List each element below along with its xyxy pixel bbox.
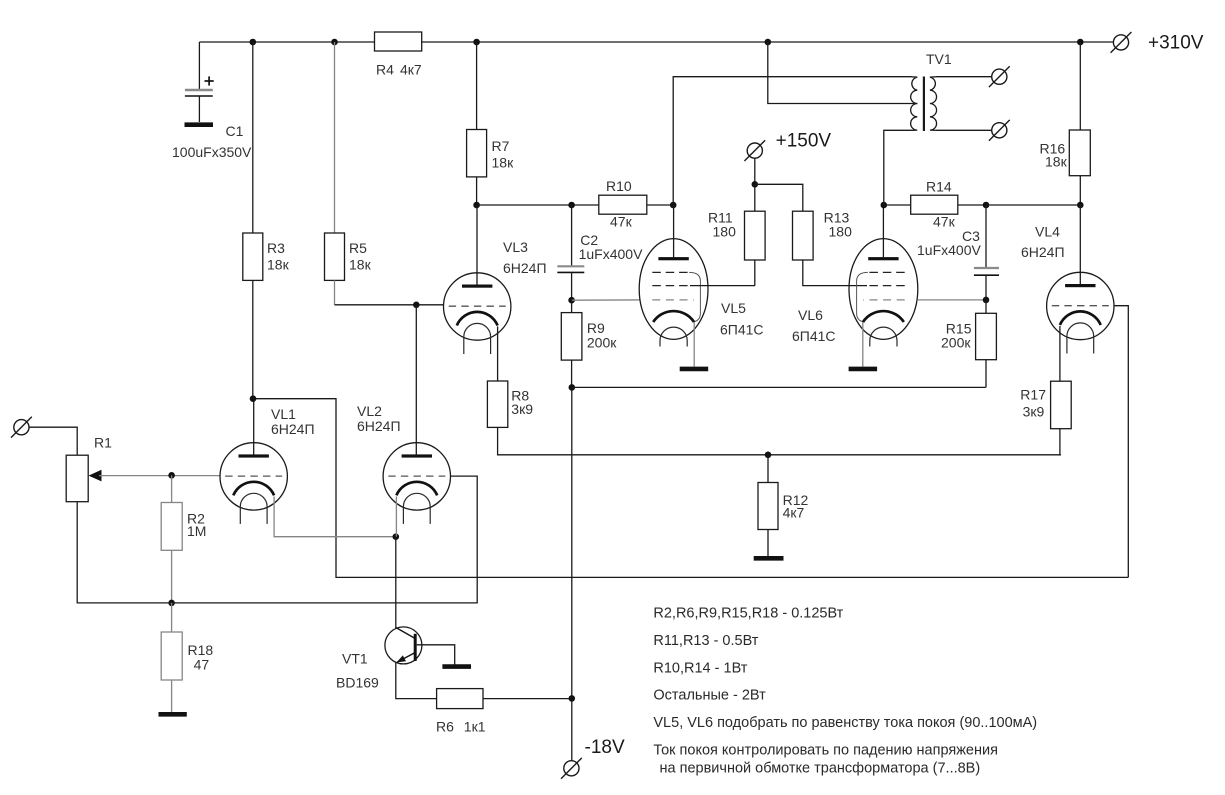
node: R18 top junction <box>168 600 175 607</box>
node: rail junction at R16 <box>1077 39 1084 46</box>
wire: VL4 anode lead <box>1079 205 1081 285</box>
svg-text:R4: R4 <box>376 62 394 78</box>
node: VL5 grid node <box>568 297 575 304</box>
wire: R7 top lead <box>476 42 478 130</box>
ground below R18 <box>159 712 187 717</box>
wire: C3 bottom lead <box>985 275 987 300</box>
node: VL6 grid node <box>983 297 990 304</box>
wire: VL5 cathode lead <box>693 322 695 367</box>
resistor R6 <box>436 689 486 735</box>
ground below C1 <box>185 122 214 127</box>
node: R9 bottom / -18V line junction <box>569 384 576 391</box>
wire: VL5 anode lead into tube <box>673 205 675 258</box>
svg-text:C1: C1 <box>226 123 244 139</box>
svg-text:200к: 200к <box>587 335 617 351</box>
svg-text:+150V: +150V <box>776 131 832 152</box>
node: rail junction at transformer centre tap <box>765 39 772 46</box>
ground below R12 <box>754 556 784 561</box>
wire: R14 right lead <box>958 204 986 206</box>
svg-text:VL1: VL1 <box>271 406 296 422</box>
wire: TV1 secondary bottom lead <box>936 129 992 131</box>
wire: VT1 emitter lead to R6 <box>396 663 437 699</box>
svg-text:180: 180 <box>713 224 737 240</box>
terminal +150V <box>744 140 765 161</box>
capacitor C2 <box>557 232 643 272</box>
svg-text:18к: 18к <box>267 257 290 273</box>
wire: VL5 screen grid stub to R11 <box>690 285 755 287</box>
svg-text:Ток покоя контролировать по па: Ток покоя контролировать по падению напр… <box>653 742 998 758</box>
wire: VL4 cathode lead <box>1059 326 1061 381</box>
TV1 secondary winding <box>930 77 937 131</box>
svg-text:3к9: 3к9 <box>511 401 533 417</box>
wire: R7 bottom lead <box>476 177 478 205</box>
terminal input <box>11 417 32 438</box>
wire: VL5 grid wire <box>572 299 640 301</box>
svg-text:VL4: VL4 <box>1035 224 1060 240</box>
wire: R15 bottom lead <box>985 360 987 388</box>
wire: +310V top rail right section <box>422 41 1114 43</box>
TV1 primary winding <box>911 77 918 131</box>
svg-text:-18V: -18V <box>585 737 625 758</box>
wire: R18 top wire <box>171 603 173 632</box>
wire: R9 top lead <box>571 300 573 312</box>
resistor R8 <box>487 381 533 427</box>
svg-text:VT1: VT1 <box>342 651 368 667</box>
triode VL2 <box>383 443 450 524</box>
node: VL5 anode junction <box>670 202 677 209</box>
ground below VL6 cathode <box>849 367 878 372</box>
svg-text:6Н24П: 6Н24П <box>357 418 401 434</box>
svg-text:VL5, VL6 подобрать по равенств: VL5, VL6 подобрать по равенству тока пок… <box>653 715 1037 731</box>
wire: VL6 anode lead <box>882 205 884 258</box>
ground at VT1 base <box>442 664 471 669</box>
svg-text:R14: R14 <box>926 179 952 195</box>
resistor R7 <box>467 130 514 177</box>
node: R11/R13 top junction <box>752 181 759 188</box>
wire: VL4 grid stub to feedback line <box>1114 306 1128 578</box>
node: VL1 anode junction <box>250 395 257 402</box>
resistor R13 <box>793 210 853 261</box>
svg-text:47к: 47к <box>933 214 956 230</box>
node: VL6 anode junction <box>881 202 888 209</box>
transistor VT1 <box>336 627 422 691</box>
svg-text:VL3: VL3 <box>503 239 528 255</box>
resistor R10 <box>599 178 647 230</box>
svg-text:R1: R1 <box>94 435 112 451</box>
wire: C3 node to R16 bottom node <box>986 204 1080 206</box>
svg-text:18к: 18к <box>1045 154 1068 170</box>
svg-text:R10: R10 <box>606 178 632 194</box>
resistor R15 <box>941 313 996 359</box>
node: VL4 anode junction <box>1077 202 1084 209</box>
node: VL3 grid / VL2 anode junction <box>413 302 420 309</box>
svg-text:R3: R3 <box>267 240 285 256</box>
wire: R1 wiper to VL1 grid <box>99 475 220 477</box>
wire: C1 to ground <box>198 96 200 122</box>
TV1 core <box>923 77 925 132</box>
triode VL4 <box>1047 272 1114 353</box>
svg-text:180: 180 <box>829 224 853 240</box>
wire: C1 top lead <box>198 42 200 89</box>
svg-text:6П41С: 6П41С <box>792 328 836 344</box>
wire: R11 top lead <box>754 184 756 211</box>
triode VL1 <box>220 443 287 524</box>
svg-text:R17: R17 <box>1020 387 1046 403</box>
wire: VL6 grid wire to C3 node <box>918 299 986 301</box>
wire: VL6 cathode lead <box>862 322 864 367</box>
wire: VT1 base to ground <box>417 645 455 665</box>
wire: R1 bottom lead and grid return line to VL2 grid <box>77 476 477 603</box>
svg-text:TV1: TV1 <box>926 51 952 67</box>
svg-text:4к7: 4к7 <box>783 505 805 521</box>
svg-text:1uFx400V: 1uFx400V <box>579 246 643 262</box>
wire: feedback line VL1 anode to VL4 grid <box>253 399 1128 578</box>
wire: VL3 anode lead <box>476 205 478 286</box>
ground below VL5 cathode <box>680 367 709 372</box>
resistor R16 <box>1040 130 1091 176</box>
wire: C3 top lead <box>985 205 987 267</box>
svg-text:VL5: VL5 <box>721 300 746 316</box>
wire: VL3 cathode lead to R8 <box>497 326 499 381</box>
node: cathode / VT1 collector junction <box>393 533 400 540</box>
svg-text:R5: R5 <box>349 240 367 256</box>
svg-text:4к7: 4к7 <box>400 62 422 78</box>
wire: R12 bottom lead <box>767 530 769 557</box>
svg-text:6П41С: 6П41С <box>720 322 764 338</box>
svg-text:VL2: VL2 <box>357 403 382 419</box>
wire: R9 bottom lead <box>571 360 573 387</box>
terminal TV1 secondary top <box>989 66 1010 87</box>
wire: R17 bottom lead to cathode return line <box>1059 429 1061 455</box>
svg-text:6Н24П: 6Н24П <box>271 421 315 437</box>
resistor R9 <box>561 313 617 361</box>
wire: junction to R13 top <box>755 184 803 211</box>
wire: VL6 anode junction to transformer primary bottom <box>884 130 912 205</box>
svg-text:VL6: VL6 <box>798 307 823 323</box>
pentode VL6 (mirrored) <box>849 239 918 347</box>
wire: R5 bottom lead to VL3 grid node <box>334 280 336 304</box>
wire: VT1 collector lead <box>395 537 397 629</box>
svg-text:3к9: 3к9 <box>1023 404 1045 420</box>
svg-text:1к1: 1к1 <box>464 719 486 735</box>
wire: R3 top lead <box>252 42 254 233</box>
wire: R8 bottom lead <box>498 427 1061 454</box>
wire: R16 bottom lead <box>1079 176 1081 205</box>
resistor R5 <box>325 233 372 280</box>
wire: +310V top rail left section <box>199 41 374 43</box>
svg-text:47: 47 <box>194 657 210 673</box>
wire: C2 top lead <box>571 205 573 266</box>
wire: R2 bottom lead <box>171 550 173 603</box>
resistor R4 <box>375 32 422 51</box>
svg-text:на первичной обмотке трансформ: на первичной обмотке трансформатора (7..… <box>660 761 981 777</box>
wire: R10 line from C2 node to R10 <box>477 204 599 206</box>
potentiometer R1 <box>66 435 112 502</box>
svg-text:Остальные - 2Вт: Остальные - 2Вт <box>653 688 766 704</box>
wire: R6 right lead to -18V line <box>483 698 572 700</box>
wire: TV1 secondary top lead <box>936 76 992 78</box>
annotation text block <box>653 606 1037 777</box>
node: R12 top junction <box>765 452 772 459</box>
svg-text:R7: R7 <box>492 138 510 154</box>
resistor R18 <box>161 632 213 680</box>
wire: VL2 cathode lead <box>395 497 397 537</box>
wire: R2 top lead <box>171 475 173 502</box>
wire: R11 bottom lead to VL5 screen <box>754 260 756 286</box>
wire: +150V lead down <box>754 158 756 184</box>
svg-text:6Н24П: 6Н24П <box>1021 244 1065 260</box>
svg-text:100uFx350V: 100uFx350V <box>172 144 252 160</box>
svg-text:R11,R13 - 0.5Вт: R11,R13 - 0.5Вт <box>653 633 758 649</box>
svg-text:R6: R6 <box>436 719 454 735</box>
transformer TV1 <box>768 42 1010 141</box>
wire: VL5 anode to transformer primary top <box>673 77 911 205</box>
wire: R12 top lead <box>767 455 769 483</box>
terminal +310V <box>1111 32 1132 53</box>
svg-text:+310V: +310V <box>1148 33 1204 54</box>
resistor R14 <box>911 179 958 230</box>
node: rail junction at R5 <box>331 39 338 46</box>
capacitor C1 <box>172 76 252 160</box>
svg-text:R10,R14 - 1Вт: R10,R14 - 1Вт <box>653 660 747 676</box>
resistor R11 <box>708 210 765 261</box>
wire: input terminal to R1 top <box>29 427 77 455</box>
wire: R14 line from VL6 anode junction <box>884 204 911 206</box>
svg-text:1uFx400V: 1uFx400V <box>917 242 981 258</box>
wire: grid return line to R15 <box>572 386 986 388</box>
svg-text:200к: 200к <box>941 335 971 351</box>
svg-text:1M: 1M <box>187 523 206 539</box>
node: R7 bottom / VL3 anode junction <box>473 202 480 209</box>
pentode VL5 <box>639 239 708 347</box>
resistor R17 <box>1020 381 1071 429</box>
svg-text:6Н24П: 6Н24П <box>503 260 547 276</box>
node: R2 top junction <box>168 472 175 479</box>
svg-text:R2,R6,R9,R15,R18 - 0.125Вт: R2,R6,R9,R15,R18 - 0.125Вт <box>653 606 843 622</box>
node: C3 top junction <box>983 202 990 209</box>
node: C2 top junction <box>568 202 575 209</box>
resistor R2 <box>161 503 206 551</box>
resistor R3 <box>243 233 290 280</box>
resistor R12 <box>758 483 808 530</box>
wire: R16 top lead <box>1079 42 1081 130</box>
terminal TV1 secondary bottom <box>989 120 1010 141</box>
node: rail junction at R7 <box>473 39 480 46</box>
wire: R13 bottom lead to VL6 screen <box>803 260 867 286</box>
node: rail junction at R3 <box>250 39 257 46</box>
wire: C2 bottom lead <box>571 272 573 300</box>
wire: R10 right lead <box>647 204 673 206</box>
wire: R18 bottom lead <box>171 680 173 712</box>
svg-text:47к: 47к <box>610 214 633 230</box>
capacitor C3 <box>917 228 999 275</box>
wire: R3 bottom lead to VL1 anode <box>252 280 254 398</box>
node: R6 / -18V line junction <box>569 695 576 702</box>
wire: VL2 anode lead <box>415 305 417 456</box>
svg-text:18к: 18к <box>349 257 372 273</box>
terminal -18V <box>561 758 582 779</box>
wire: -18V vertical line <box>571 387 573 761</box>
wire: R15 top lead <box>985 300 987 313</box>
wire: VL1 cathode lead <box>274 497 396 537</box>
wire: TV1 primary centre tap <box>768 42 918 104</box>
svg-text:BD169: BD169 <box>336 675 379 691</box>
svg-text:18к: 18к <box>492 155 515 171</box>
triode VL3 <box>444 273 511 354</box>
wire: R5 top lead <box>334 42 336 233</box>
